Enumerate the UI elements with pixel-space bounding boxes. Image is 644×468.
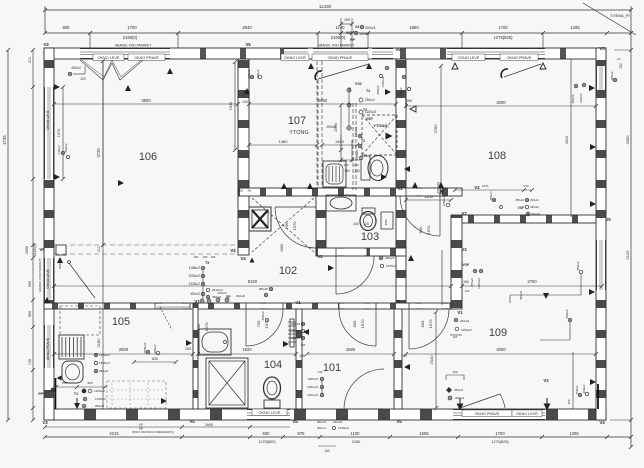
svg-text:V2: V2 bbox=[461, 247, 467, 252]
svg-text:1970: 1970 bbox=[426, 225, 431, 235]
cluster 102 right of door bbox=[379, 256, 383, 260]
marker triangle top wall 4 bbox=[167, 68, 173, 74]
door opening room 109 top bbox=[409, 304, 450, 309]
dim bottom row bbox=[45, 436, 631, 438]
entrance arrow bottom-left bbox=[76, 398, 78, 404]
wall below room 103 bbox=[316, 248, 406, 256]
dim 1530 bbox=[234, 62, 236, 150]
svg-text:150: 150 bbox=[211, 255, 216, 259]
wall corridor south bbox=[44, 303, 451, 309]
svg-text:11430: 11430 bbox=[319, 4, 332, 9]
door arc room 109 bbox=[409, 309, 449, 349]
svg-text:V3: V3 bbox=[599, 420, 605, 425]
svg-text:V5: V5 bbox=[292, 419, 298, 424]
marker triangle 105/104 wall bbox=[186, 340, 192, 346]
hollow triangle window top-3 a bbox=[452, 63, 458, 69]
svg-text:1255u/2: 1255u/2 bbox=[289, 329, 300, 333]
svg-text:1970: 1970 bbox=[428, 319, 433, 329]
svg-text:107: 107 bbox=[288, 115, 306, 127]
dim 3780 room 108 bbox=[440, 66, 442, 192]
window bottom-2 okno bbox=[453, 410, 545, 420]
cluster Q 105 dims bbox=[146, 350, 150, 354]
svg-text:OKNO LEVÉ: OKNO LEVÉ bbox=[516, 411, 538, 416]
dark corner edge bottom-left bbox=[55, 378, 57, 409]
door arc niche 102 bbox=[275, 207, 316, 248]
window left-2 okno bbox=[45, 258, 54, 300]
dim 1920 room 104 bbox=[198, 353, 296, 355]
svg-text:260u/9: 260u/9 bbox=[291, 322, 301, 326]
window right-2 bbox=[597, 240, 606, 290]
svg-text:108: 108 bbox=[488, 150, 506, 162]
svg-text:1200u/4: 1200u/4 bbox=[307, 393, 318, 397]
dim left segmented bbox=[32, 50, 34, 420]
marker triangle bottom V4 bbox=[250, 258, 255, 263]
svg-text:450u/2: 450u/2 bbox=[571, 94, 575, 104]
svg-text:1100: 1100 bbox=[424, 194, 433, 199]
svg-text:DE1x3: DE1x3 bbox=[317, 420, 326, 424]
entrance arrow 109 b bbox=[546, 398, 548, 407]
svg-text:190: 190 bbox=[344, 18, 350, 22]
marker triangle right wall 2 bbox=[590, 144, 596, 150]
cluster vsp2 under wall 108/109 bbox=[455, 189, 532, 191]
svg-text:250u/3: 250u/3 bbox=[326, 125, 336, 129]
label okno prave bottom bbox=[462, 410, 512, 417]
svg-text:V5: V5 bbox=[245, 42, 251, 47]
marker triangle 102 east bbox=[408, 255, 414, 261]
dim 1400 bbox=[322, 144, 357, 146]
window bottom-1 okno bbox=[247, 410, 290, 420]
svg-text:1000: 1000 bbox=[25, 246, 29, 254]
window opening diagonal left wall bbox=[69, 263, 95, 298]
toilet 103 bbox=[360, 212, 376, 231]
svg-text:300u/3: 300u/3 bbox=[365, 26, 375, 30]
svg-text:4000: 4000 bbox=[496, 347, 506, 352]
dim 3720 bbox=[102, 61, 104, 245]
marker triangle 101 radiator bbox=[303, 329, 309, 335]
svg-text:1185u/2: 1185u/2 bbox=[307, 377, 318, 381]
dim 750/905 bottom-left bbox=[56, 386, 105, 388]
marker triangle left wall 3 bbox=[44, 297, 50, 303]
svg-text:200: 200 bbox=[452, 370, 457, 374]
wall outer right bbox=[596, 48, 606, 420]
svg-text:V2: V2 bbox=[317, 254, 323, 259]
marker triangle flue bbox=[386, 133, 393, 140]
cluster E room107 left bbox=[250, 75, 254, 79]
svg-text:400u/2: 400u/2 bbox=[71, 66, 81, 70]
flue ytong dashed box bbox=[362, 115, 397, 155]
svg-text:150: 150 bbox=[299, 354, 305, 358]
wall between 101 and 109 bbox=[394, 309, 402, 409]
svg-text:1970: 1970 bbox=[57, 129, 61, 137]
svg-text:550: 550 bbox=[28, 281, 32, 287]
svg-text:130: 130 bbox=[301, 343, 306, 347]
svg-text:STENA_PI: STENA_PI bbox=[610, 13, 629, 18]
svg-text:120: 120 bbox=[465, 289, 470, 293]
svg-text:OKNO LEVÉ: OKNO LEVÉ bbox=[98, 55, 120, 60]
dashed cabinet 105 bbox=[60, 306, 100, 335]
svg-text:430: 430 bbox=[353, 222, 359, 226]
window top-2a okno bbox=[284, 49, 308, 59]
svg-text:VSP: VSP bbox=[518, 206, 525, 210]
svg-text:450u/2: 450u/2 bbox=[575, 385, 579, 394]
svg-text:1920: 1920 bbox=[242, 347, 252, 352]
svg-text:HRANOL POD PARAPETY: HRANOL POD PARAPETY bbox=[38, 258, 42, 292]
svg-text:T5: T5 bbox=[205, 261, 209, 265]
svg-text:OKNO PRAVÉ: OKNO PRAVÉ bbox=[475, 411, 500, 416]
dim 2800 room 105 bbox=[54, 353, 193, 355]
svg-text:103: 103 bbox=[361, 231, 379, 243]
svg-text:1250u/2: 1250u/2 bbox=[338, 426, 349, 430]
cluster G 108 left bbox=[402, 75, 406, 79]
marker triangle wall W4 b bbox=[307, 183, 313, 189]
door arc room 101 bbox=[339, 309, 376, 346]
svg-text:2160(0): 2160(0) bbox=[331, 35, 346, 40]
dim 1880 room 101 bbox=[307, 353, 394, 355]
svg-text:350: 350 bbox=[567, 399, 571, 404]
window top-2b okno bbox=[313, 49, 368, 59]
wall below room 107 and vestibule north bbox=[238, 188, 462, 196]
svg-text:75: 75 bbox=[247, 189, 251, 193]
circles column ytong partition bbox=[358, 134, 362, 138]
dim 2950 room 107 bbox=[249, 103, 396, 105]
svg-text:800: 800 bbox=[352, 320, 357, 327]
dim 4000 room 108 bbox=[406, 105, 596, 107]
dim 2040 room 109 bbox=[435, 312, 437, 408]
svg-text:PP: PP bbox=[350, 38, 356, 42]
svg-text:2160: 2160 bbox=[352, 440, 360, 444]
svg-text:V2: V2 bbox=[397, 186, 403, 191]
svg-text:1250u/2: 1250u/2 bbox=[381, 76, 385, 87]
svg-text:HRANOL POD PARAPET: HRANOL POD PARAPET bbox=[115, 44, 152, 48]
svg-text:V1: V1 bbox=[395, 299, 401, 304]
svg-text:(PRO ODVOD KONDENZATU): (PRO ODVOD KONDENZATU) bbox=[132, 430, 174, 434]
svg-text:1080: 1080 bbox=[280, 244, 284, 252]
svg-text:455u/2: 455u/2 bbox=[515, 198, 524, 202]
svg-text:1255u/2: 1255u/2 bbox=[386, 264, 397, 268]
label okno prave top3 bbox=[500, 54, 538, 61]
corner dark edge bottom right bbox=[597, 384, 599, 409]
svg-text:450u/2: 450u/2 bbox=[212, 295, 222, 299]
marker triangle 109 left wall bbox=[404, 364, 410, 370]
svg-text:1285: 1285 bbox=[569, 431, 579, 436]
svg-text:OKNO PRAVÉ: OKNO PRAVÉ bbox=[328, 55, 353, 60]
window top-2c okno bbox=[372, 49, 393, 59]
svg-text:1185u/2: 1185u/2 bbox=[365, 110, 377, 114]
window swing 109 bottom bbox=[460, 394, 500, 408]
svg-text:1250u/2: 1250u/2 bbox=[99, 353, 110, 357]
svg-text:DE1x1: DE1x1 bbox=[317, 426, 326, 430]
svg-text:3800: 3800 bbox=[141, 98, 151, 103]
radiator 101 bbox=[290, 319, 294, 347]
washing zone dashed 105 bbox=[107, 381, 166, 408]
svg-text:OKNO LEVÉ: OKNO LEVÉ bbox=[284, 55, 306, 60]
svg-text:V4: V4 bbox=[240, 256, 246, 261]
svg-text:V1: V1 bbox=[194, 299, 200, 304]
svg-text:2800: 2800 bbox=[119, 347, 129, 352]
svg-text:450u/2: 450u/2 bbox=[519, 290, 523, 300]
leader line window top-3 bbox=[504, 64, 541, 77]
svg-text:210: 210 bbox=[97, 246, 101, 252]
wall outer bottom bbox=[44, 409, 606, 420]
svg-text:150: 150 bbox=[242, 100, 248, 104]
marker triangle wall y188 right a bbox=[412, 182, 418, 188]
door opening room 101 bbox=[339, 304, 376, 309]
label okno leve top3 bbox=[452, 54, 485, 61]
svg-text:x3: x3 bbox=[617, 57, 621, 61]
dim 2550 bbox=[340, 105, 342, 150]
svg-text:495u/2: 495u/2 bbox=[530, 205, 539, 209]
svg-text:1250u/2: 1250u/2 bbox=[354, 126, 358, 137]
marker triangle 107 left bbox=[244, 88, 250, 94]
svg-text:450u/2: 450u/2 bbox=[64, 143, 68, 153]
svg-text:1185u/3: 1185u/3 bbox=[355, 149, 359, 160]
svg-text:1400: 1400 bbox=[335, 139, 345, 144]
window right-1 bbox=[597, 66, 606, 90]
svg-text:V5: V5 bbox=[395, 47, 401, 52]
svg-text:150: 150 bbox=[185, 347, 191, 351]
dashed partition room 107 bbox=[316, 61, 318, 188]
svg-text:4735: 4735 bbox=[2, 135, 7, 145]
svg-text:450u/2: 450u/2 bbox=[153, 344, 157, 354]
shower 103 drain square bbox=[249, 207, 271, 231]
svg-text:190: 190 bbox=[344, 169, 350, 173]
svg-text:V1: V1 bbox=[295, 300, 301, 305]
svg-text:1455u/2: 1455u/2 bbox=[99, 361, 110, 365]
svg-text:2160(0): 2160(0) bbox=[33, 244, 37, 256]
svg-text:1700: 1700 bbox=[498, 25, 508, 30]
svg-text:2125: 2125 bbox=[625, 250, 630, 260]
svg-text:800: 800 bbox=[420, 320, 425, 327]
entrance door arc room 101 bottom bbox=[344, 369, 384, 409]
window left-3 okno bbox=[45, 325, 54, 368]
dim 830 bbox=[134, 361, 176, 363]
svg-text:1805u/2: 1805u/2 bbox=[143, 342, 147, 353]
svg-text:210: 210 bbox=[28, 57, 32, 63]
guide line x573 bbox=[572, 352, 574, 409]
shower 104 bbox=[206, 358, 248, 408]
svg-text:OKNO LEVÉ: OKNO LEVÉ bbox=[458, 55, 480, 60]
door dashed leaf room 105 bbox=[157, 306, 190, 308]
marker triangle wall y188 right b bbox=[438, 182, 444, 188]
marker triangle tub corner bbox=[57, 376, 62, 381]
svg-text:800: 800 bbox=[418, 226, 423, 233]
svg-text:2510u/2: 2510u/2 bbox=[212, 288, 223, 292]
beam end box left wall bbox=[56, 245, 66, 255]
svg-text:450u/2: 450u/2 bbox=[291, 336, 301, 340]
svg-text:450u/2: 450u/2 bbox=[376, 85, 380, 95]
svg-text:130: 130 bbox=[318, 370, 323, 374]
marker triangle 109 bbox=[543, 293, 549, 299]
dim 2750 bbox=[462, 285, 602, 287]
svg-text:V2: V2 bbox=[461, 211, 467, 216]
svg-text:1275(825): 1275(825) bbox=[491, 440, 509, 444]
svg-text:2950: 2950 bbox=[318, 98, 328, 103]
svg-text:1100: 1100 bbox=[350, 431, 360, 436]
marker triangle 107 bath bbox=[381, 174, 387, 180]
svg-text:200: 200 bbox=[80, 77, 86, 81]
boiler 103 450L bbox=[381, 212, 393, 229]
entrance arrow 109 a bbox=[459, 398, 461, 407]
guide line x442 vestibule bbox=[441, 250, 443, 305]
svg-text:2160(0): 2160(0) bbox=[123, 35, 138, 40]
svg-text:750: 750 bbox=[61, 381, 66, 385]
wall W2 left of room 107 bbox=[238, 59, 249, 255]
svg-text:380u/2: 380u/2 bbox=[610, 71, 614, 81]
svg-text:380u/9: 380u/9 bbox=[247, 69, 251, 79]
svg-text:1250u/2: 1250u/2 bbox=[307, 385, 318, 389]
cluster J right wall top bbox=[574, 84, 578, 88]
svg-text:455u/2: 455u/2 bbox=[470, 278, 474, 288]
grid line x103 bbox=[102, 61, 104, 409]
svg-text:105: 105 bbox=[112, 316, 130, 328]
svg-text:SP: SP bbox=[226, 295, 231, 299]
svg-text:450u/2: 450u/2 bbox=[399, 87, 403, 97]
door opening room 104 bbox=[246, 304, 283, 309]
svg-text:320: 320 bbox=[237, 189, 243, 193]
svg-text:T2: T2 bbox=[361, 139, 365, 143]
svg-text:T2: T2 bbox=[366, 89, 370, 93]
dim 1970 left window bbox=[62, 87, 64, 179]
marker triangle right wall 2b bbox=[590, 201, 596, 207]
door arc room 104 bbox=[246, 309, 283, 346]
svg-text:V3: V3 bbox=[42, 420, 48, 425]
svg-text:600: 600 bbox=[263, 431, 271, 436]
marker triangle beam end bbox=[57, 257, 63, 263]
svg-text:1970: 1970 bbox=[292, 221, 297, 231]
marker triangle washing 105 bbox=[161, 398, 167, 404]
svg-text:2750: 2750 bbox=[527, 279, 537, 284]
svg-text:250u/2: 250u/2 bbox=[365, 98, 375, 102]
dim 3800 room 106 bbox=[54, 103, 238, 105]
svg-text:455u/2: 455u/2 bbox=[454, 388, 464, 392]
door arc vestibule bbox=[400, 196, 440, 236]
radiator 105 bbox=[59, 335, 84, 359]
svg-text:260u/4: 260u/4 bbox=[385, 256, 395, 260]
svg-text:V5: V5 bbox=[189, 419, 195, 424]
cluster 109 door bbox=[454, 318, 458, 322]
marker triangle top wall 1 bbox=[308, 63, 314, 69]
label okno leve bottom2 bbox=[512, 410, 542, 417]
svg-text:V4: V4 bbox=[230, 248, 236, 253]
svg-text:1275(825): 1275(825) bbox=[493, 35, 513, 40]
wall between 105 and 104 bbox=[193, 303, 198, 409]
dim total 11430 bbox=[45, 9, 631, 11]
svg-text:1185u/2: 1185u/2 bbox=[189, 266, 201, 270]
svg-text:HRANOL POD PARAPET: HRANOL POD PARAPET bbox=[318, 44, 355, 48]
svg-text:1325u/2: 1325u/2 bbox=[188, 282, 200, 286]
label okno leve bottom bbox=[252, 409, 287, 416]
dim right bbox=[630, 33, 632, 447]
marker triangle 108 a bbox=[410, 106, 416, 112]
wall W7 vestibule right bbox=[451, 215, 462, 309]
washer 107 bath bbox=[323, 161, 346, 187]
svg-text:1460: 1460 bbox=[279, 139, 289, 144]
svg-text:1530: 1530 bbox=[229, 102, 233, 110]
svg-text:1555: 1555 bbox=[419, 431, 429, 436]
svg-text:450u/3: 450u/3 bbox=[489, 191, 493, 201]
svg-text:OKNO PRAVÉ: OKNO PRAVÉ bbox=[45, 337, 50, 360]
svg-text:V2: V2 bbox=[474, 185, 480, 190]
leader STENA_P bbox=[583, 3, 636, 35]
marker triangle right wall 3 bbox=[589, 289, 595, 295]
svg-text:V1: V1 bbox=[457, 310, 463, 315]
svg-text:130: 130 bbox=[523, 184, 528, 188]
svg-text:150: 150 bbox=[619, 63, 623, 69]
svg-text:1250u/2: 1250u/2 bbox=[477, 278, 481, 289]
svg-text:240u/2: 240u/2 bbox=[333, 420, 343, 424]
svg-text:V2: V2 bbox=[543, 378, 549, 383]
svg-text:450u/2: 450u/2 bbox=[576, 261, 580, 271]
door arc room 103 to 102 bbox=[336, 256, 374, 294]
svg-text:V5: V5 bbox=[39, 247, 45, 252]
svg-text:260u/3: 260u/3 bbox=[99, 369, 109, 373]
svg-text:260u/4: 260u/4 bbox=[95, 404, 105, 408]
wall niche W5 bbox=[316, 196, 326, 256]
svg-text:3780: 3780 bbox=[433, 124, 438, 134]
svg-text:120: 120 bbox=[453, 335, 458, 339]
svg-text:PP: PP bbox=[38, 391, 44, 396]
svg-text:450u/2: 450u/2 bbox=[565, 309, 569, 319]
svg-text:2840: 2840 bbox=[242, 25, 252, 30]
dim 1100 vestibule bbox=[406, 199, 451, 201]
label okno prave top2 bbox=[312, 54, 368, 61]
dashed beam over corridor bbox=[54, 244, 238, 246]
dim left 4735 bbox=[7, 50, 9, 420]
dashed ytong partition x353 bbox=[352, 103, 354, 190]
toilet 107 bath bbox=[368, 156, 388, 181]
svg-text:975: 975 bbox=[298, 431, 306, 436]
svg-text:700: 700 bbox=[284, 222, 289, 229]
svg-text:VS2: VS2 bbox=[355, 82, 362, 86]
svg-text:190: 190 bbox=[343, 163, 348, 167]
arc symbol window top-3 bbox=[501, 69, 508, 78]
svg-text:150: 150 bbox=[203, 255, 208, 259]
svg-text:450u/2: 450u/2 bbox=[256, 69, 260, 79]
marker triangle 104 door bbox=[283, 341, 289, 347]
dim 8150 corridor bbox=[54, 285, 451, 287]
svg-text:OKNO PRAVÉ: OKNO PRAVÉ bbox=[134, 55, 159, 60]
svg-text:240u/3: 240u/3 bbox=[57, 145, 61, 155]
dim 4000 room 109 bbox=[406, 353, 596, 355]
svg-text:VSP: VSP bbox=[462, 263, 470, 267]
svg-text:YTONG: YTONG bbox=[289, 130, 308, 136]
svg-text:280u/5: 280u/5 bbox=[259, 287, 269, 291]
cluster V right 109 bbox=[568, 318, 572, 322]
svg-text:1880: 1880 bbox=[346, 347, 356, 352]
svg-text:1275(825): 1275(825) bbox=[258, 440, 276, 444]
svg-text:180: 180 bbox=[194, 255, 199, 259]
svg-text:1285: 1285 bbox=[570, 25, 580, 30]
svg-text:101: 101 bbox=[323, 362, 341, 374]
svg-text:1700: 1700 bbox=[127, 25, 137, 30]
hranol zigzag under window top-1 bbox=[80, 60, 143, 80]
wall outer top bbox=[44, 48, 606, 59]
guide line x571 in room 108 bbox=[570, 59, 572, 217]
svg-text:OKNO PRAVÉ: OKNO PRAVÉ bbox=[507, 55, 532, 60]
svg-text:1970: 1970 bbox=[204, 322, 209, 332]
svg-text:102: 102 bbox=[279, 265, 297, 277]
svg-text:260u/4: 260u/4 bbox=[579, 93, 583, 103]
marker triangle near W3 top bbox=[385, 89, 391, 95]
svg-text:V5: V5 bbox=[605, 217, 611, 222]
marker triangle 106b bbox=[125, 85, 131, 91]
svg-text:OKNO LEVÉ: OKNO LEVÉ bbox=[45, 268, 50, 288]
dim 1460 bbox=[249, 144, 317, 146]
svg-text:1250u/2: 1250u/2 bbox=[461, 328, 472, 332]
svg-text:104: 104 bbox=[264, 359, 282, 371]
marker triangle wall W4 a bbox=[281, 183, 287, 189]
svg-text:450u/2: 450u/2 bbox=[190, 292, 200, 296]
